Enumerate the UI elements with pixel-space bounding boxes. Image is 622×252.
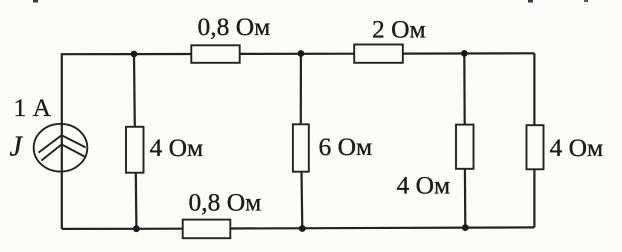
svg-text:2 Ом: 2 Ом [372, 15, 426, 44]
wire: branch 3 vertical bottom [464, 169, 467, 228]
node: bottom junction at branch 2 [299, 225, 306, 232]
resistor 4 Ом branch 1: box [126, 127, 144, 173]
wire: top rail segment 1 [61, 53, 192, 55]
svg-text:4 Ом: 4 Ом [150, 133, 204, 162]
resistor 4 Ом branch 3: box [456, 125, 474, 169]
svg-text:4 Ом: 4 Ом [397, 171, 451, 200]
stray speck top edge left [33, 0, 38, 3]
node: bottom junction at branch 1 [133, 225, 140, 232]
wire: left vertical (through source) [61, 54, 63, 229]
resistor 0,8 Ом top-left: box [191, 45, 239, 63]
current source J: circle [34, 124, 88, 172]
wire: right vertical bottom [533, 169, 535, 227]
node: top junction at branch 2 [298, 50, 305, 57]
wire: right vertical top [533, 53, 535, 125]
resistor 2 Ом top-right: box [354, 45, 403, 63]
wire: branch 2 vertical bottom [300, 172, 303, 229]
stray speck top edge middle-right [528, 0, 533, 3]
wire: top rail segment 2 [240, 53, 355, 55]
current source J: lower arrow chevron [41, 144, 84, 160]
node: bottom junction at branch 3 [462, 224, 469, 231]
wire: branch 3 vertical top [463, 53, 466, 125]
svg-text:0,8 Ом: 0,8 Ом [189, 188, 262, 217]
resistor 4 Ом branch 4: box [527, 125, 544, 169]
wire: top rail segment 3 [403, 52, 535, 54]
svg-text:1 А: 1 А [14, 93, 52, 122]
wire: branch 1 vertical top [133, 54, 136, 127]
svg-text:6 Ом: 6 Ом [319, 132, 373, 161]
resistor 0,8 Ом bottom: box [183, 220, 231, 239]
svg-text:4 Ом: 4 Ом [550, 133, 604, 162]
wire: branch 2 vertical top [300, 54, 302, 125]
svg-text:0,8 Ом: 0,8 Ом [198, 12, 271, 41]
svg-text:J: J [10, 132, 24, 163]
wire: bottom rail segment 2 [230, 227, 534, 228]
wire: branch 1 vertical bottom [135, 173, 138, 229]
current source J: upper arrow chevron [39, 135, 86, 152]
node: top junction at branch 1 [131, 51, 138, 58]
node: top junction at branch 3 [461, 50, 468, 57]
wire: bottom rail segment 1 [62, 228, 183, 230]
stray speck top edge right [584, 0, 588, 2]
resistor 6 Ом branch 2: box [293, 124, 309, 171]
